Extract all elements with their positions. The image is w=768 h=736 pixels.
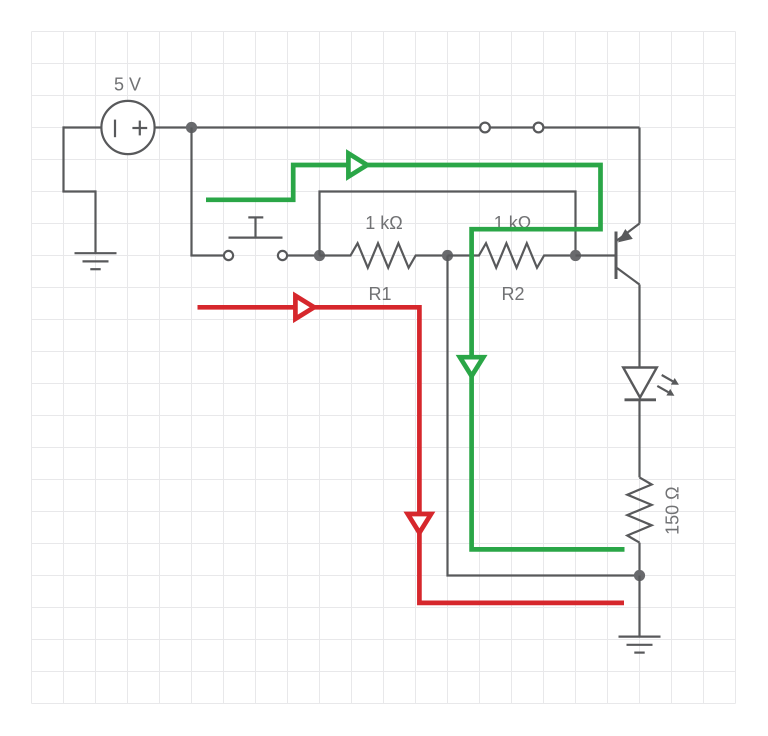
wire left vertical to ground jog xyxy=(62,126,64,191)
pushbutton S1 xyxy=(224,217,287,260)
svg-text:5 V: 5 V xyxy=(114,75,141,95)
wire pushbutton pin 2 to node B xyxy=(287,254,319,256)
resistor R1 xyxy=(320,243,448,268)
transistor Q1 (PNP) xyxy=(616,224,640,285)
wire source negative lead going left xyxy=(64,126,102,128)
junction node B (left of R1) xyxy=(314,250,325,261)
red flow arrow (downward) xyxy=(408,514,431,533)
wire into pushbutton pin 1 xyxy=(190,254,224,256)
green flow arrow (rightward, top segment) xyxy=(348,153,367,176)
resistor R3 150 Ohm xyxy=(627,477,651,542)
wire down to ground xyxy=(94,190,96,253)
wire collector down to LED xyxy=(638,285,640,368)
red flow arrow (rightward) xyxy=(295,296,314,319)
wire bypass from node B up and over to node D xyxy=(320,192,576,256)
resistor R2 xyxy=(448,243,576,268)
red current path polyline xyxy=(198,307,625,603)
LED light arrows xyxy=(657,375,679,396)
wire top rail from source to transistor emitter branch xyxy=(155,126,640,128)
LED D1 xyxy=(623,368,657,400)
junction node C (between R1 and R2) xyxy=(442,250,453,261)
wire jog horizontal xyxy=(62,190,95,192)
junction node E (bottom) xyxy=(634,570,645,581)
junction node A (source output) xyxy=(186,122,197,133)
wire base lead from node D to transistor xyxy=(576,254,617,256)
wire resistor R3 to node E xyxy=(638,543,640,576)
wire node E to ground xyxy=(638,576,640,637)
ground (bottom right) xyxy=(619,637,661,653)
ground (left, below source) xyxy=(75,253,117,269)
green flow arrow (downward) xyxy=(460,357,483,376)
wire emitter up to top rail xyxy=(638,128,640,224)
voltage source V1 5V xyxy=(101,101,154,154)
wire node C down to bottom node E xyxy=(448,256,640,576)
svg-text:150 Ω: 150 Ω xyxy=(662,486,682,534)
svg-text:R1: R1 xyxy=(368,284,391,304)
svg-text:R2: R2 xyxy=(501,284,524,304)
wire from node A down to pushbutton xyxy=(190,128,192,256)
wire LED to resistor R3 xyxy=(638,401,640,477)
junction node D (base node) xyxy=(570,250,581,261)
svg-text:1 kΩ: 1 kΩ xyxy=(365,213,402,233)
green current path polyline xyxy=(206,165,625,549)
switch pins on top rail (open circles) xyxy=(480,123,490,133)
